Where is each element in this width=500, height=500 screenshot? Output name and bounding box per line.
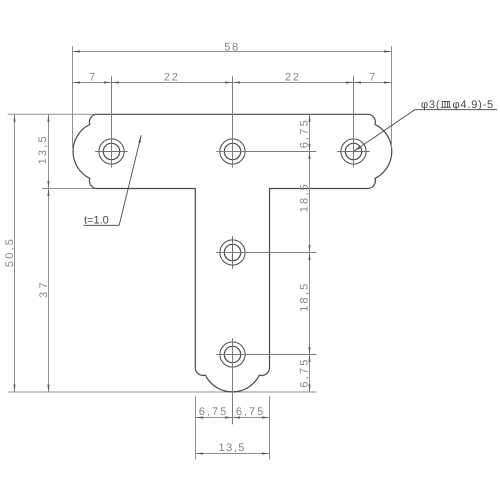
- svg-text:7: 7: [89, 72, 95, 84]
- hole H1 crosshair: [95, 151, 127, 153]
- extension line: plate bottom: [8, 391, 317, 393]
- svg-text:13,5: 13,5: [37, 134, 49, 164]
- hole H1 circles: [103, 143, 119, 159]
- svg-text:t=1.0: t=1.0: [84, 215, 109, 227]
- extension line: bar bottom left: [42, 188, 97, 190]
- hole H2 crosshair: [216, 151, 316, 153]
- dim 7/22/22/7: dimension line: [73, 82, 392, 84]
- svg-text:18,5: 18,5: [298, 282, 310, 312]
- dim 58: dimension line: [73, 51, 392, 53]
- dim 58: extension lines: [72, 46, 74, 148]
- svg-text:6,75: 6,75: [236, 406, 265, 418]
- svg-text:58: 58: [224, 41, 240, 53]
- svg-text:7: 7: [369, 72, 375, 84]
- right chain dimension line: [309, 114, 311, 392]
- svg-text:22: 22: [285, 71, 301, 83]
- dim 6,75/6,75 bottom line: [196, 417, 270, 419]
- svg-text:37: 37: [38, 279, 50, 298]
- hole H3 crosshair: [337, 151, 369, 153]
- bottom ext line stem left: [195, 396, 197, 460]
- svg-text:18,5: 18,5: [298, 182, 310, 212]
- plate outline: [73, 114, 392, 392]
- svg-text:50,5: 50,5: [4, 237, 16, 267]
- hole H3 circles: [345, 143, 361, 159]
- hole H5 circles: [224, 346, 240, 362]
- svg-text:φ3(: φ3(: [421, 99, 440, 111]
- bottom ext line stem right: [269, 396, 271, 460]
- svg-text:6,75: 6,75: [298, 118, 310, 148]
- dim 50,5: dimension line: [14, 114, 16, 392]
- dim 13,5 bottom line: [196, 453, 270, 455]
- hole H4 circles: [224, 244, 240, 260]
- kanji sara glyph: [441, 102, 451, 108]
- svg-text:13,5: 13,5: [218, 442, 245, 454]
- extension line: plate top edge + left/right dim extensions: [8, 113, 97, 115]
- svg-text:22: 22: [164, 71, 180, 83]
- dim 13,5/37: dimension line: [48, 114, 50, 392]
- hole H2 circles: [224, 143, 240, 159]
- svg-text:6,75: 6,75: [298, 357, 310, 387]
- hole H5 crosshair: [216, 354, 316, 356]
- svg-text:6,75: 6,75: [199, 406, 228, 418]
- leader t=1.0: [83, 224, 119, 226]
- hole H4 crosshair: [216, 252, 316, 254]
- svg-text:φ4.9)-5: φ4.9)-5: [453, 99, 494, 111]
- leader phi3: [354, 110, 416, 152]
